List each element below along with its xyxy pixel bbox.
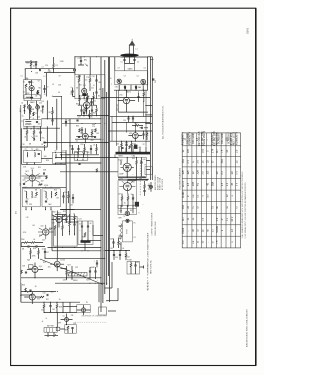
wire det row2	[31, 248, 46, 258]
tube V14 pins	[119, 180, 135, 194]
audio output stage box	[54, 217, 78, 247]
svg-text:IF: IF	[33, 118, 34, 120]
battery cell marks	[47, 328, 53, 333]
resistor R30	[79, 98, 81, 102]
svg-text:R18: R18	[39, 235, 42, 237]
resistor R25	[25, 288, 27, 292]
svg-text:AT 90 VOLTS: AT 90 VOLTS	[161, 178, 164, 190]
wire pilot leads	[76, 305, 90, 315]
wire right vertical x147	[147, 72, 149, 91]
svg-text:SYN: SYN	[139, 178, 142, 180]
filter box	[77, 305, 90, 313]
wire x66 vert	[65, 164, 67, 214]
wire audio extra leads	[67, 215, 75, 223]
svg-text:SPKR: SPKR	[127, 228, 129, 233]
wire gang right drop	[145, 90, 147, 146]
resistor R47	[135, 125, 139, 127]
capacitor C13	[42, 106, 44, 107]
junction rail1236c	[94, 122, 97, 125]
svg-text:R29: R29	[65, 330, 68, 332]
wire rail y112.1	[118, 111, 148, 113]
resistor R6	[24, 105, 26, 109]
resistor R34	[95, 129, 97, 133]
wire vert x52	[51, 211, 53, 251]
wire topleft rail y62	[25, 61, 37, 63]
electrolytic polarity bar	[81, 240, 91, 243]
wire rail y235.4	[93, 234, 103, 236]
wire antenna to grid	[121, 57, 148, 64]
svg-text:1U5: 1U5	[193, 181, 195, 186]
wire rail y176 det	[22, 175, 48, 177]
svg-text:1T4: 1T4	[80, 133, 83, 135]
capacitor C70 right of T5	[72, 198, 74, 199]
svg-text:.05: .05	[68, 120, 70, 122]
hatched resistor bar	[68, 272, 87, 276]
wire rail y258.3	[45, 257, 105, 259]
junction v2 below	[83, 96, 86, 99]
svg-text:C23: C23	[79, 224, 82, 226]
capacitor C37	[76, 120, 78, 121]
tube V15 output socket	[125, 211, 129, 215]
wire vertical x46.5	[46, 73, 48, 97]
svg-text:C54: C54	[123, 120, 126, 122]
wire v3 drops	[25, 107, 43, 119]
svg-text:T2: T2	[25, 149, 27, 151]
resistor R7	[33, 112, 35, 116]
bus wire 5	[108, 57, 110, 276]
wire y157.8 rail	[55, 157, 118, 159]
svg-text:R27: R27	[46, 299, 49, 301]
IF coil L11	[77, 153, 80, 157]
IF coil L6	[26, 123, 32, 126]
wire topleft leads	[25, 60, 37, 69]
wire mixer cascade leads	[84, 93, 92, 119]
svg-text:C18: C18	[26, 217, 29, 219]
svg-text:C4: C4	[58, 92, 60, 94]
svg-text:C9: C9	[46, 87, 48, 89]
tube V9 leads	[24, 292, 40, 305]
svg-text:C29: C29	[75, 267, 78, 269]
gang mounting pads	[124, 87, 126, 89]
svg-text:--: --	[207, 139, 209, 141]
wire rail y141.2	[110, 140, 150, 142]
svg-text:T6: T6	[123, 216, 125, 218]
svg-text:90 V: 90 V	[232, 216, 234, 221]
svg-text:R2: R2	[23, 82, 25, 84]
capacitor C68 mixer top	[78, 76, 80, 77]
wire filter leads	[114, 238, 119, 248]
svg-text:T5: T5	[44, 191, 46, 193]
tube V5 3S4 output	[56, 217, 62, 223]
capacitor C51	[119, 255, 121, 256]
wire c9 leads	[44, 85, 46, 93]
svg-text:.01: .01	[40, 111, 42, 113]
bus wire 4	[106, 92, 108, 285]
capacitor C31	[29, 290, 31, 291]
wire gang stator leads	[119, 85, 143, 90]
resistor R33	[79, 129, 81, 133]
tube V3b socket circle	[36, 105, 40, 109]
coupling capacitor C7	[40, 69, 41, 71]
wire c9b leads	[73, 88, 75, 97]
wire stub right edge y59.6	[150, 59, 153, 61]
svg-text:.01: .01	[46, 199, 48, 201]
capacitor C25	[28, 245, 29, 247]
svg-text:0*: 0*	[222, 218, 224, 220]
svg-text:.05: .05	[35, 96, 37, 98]
wire right edge x152.3	[151, 57, 153, 180]
junction power rail	[126, 176, 129, 179]
right small box	[145, 167, 153, 175]
svg-text:T4: T4	[24, 191, 26, 193]
wire dashed right low	[147, 262, 149, 292]
cathode dark blob V2	[82, 94, 86, 96]
svg-text:R15: R15	[63, 211, 66, 213]
resistor R9	[33, 131, 35, 135]
svg-text:C27: C27	[46, 252, 49, 254]
switch body box	[65, 325, 77, 334]
connector block bottom	[99, 307, 107, 315]
svg-text:C17: C17	[62, 150, 65, 152]
svg-text:100: 100	[38, 124, 41, 126]
resistor R1	[53, 64, 55, 68]
tube V12 1T4	[82, 133, 88, 139]
bus wire 2	[102, 88, 104, 303]
svg-text:R44: R44	[126, 257, 129, 259]
wire rt cluster leads	[61, 191, 75, 210]
resistor R31	[93, 96, 95, 100]
T4 secondary coil	[31, 192, 34, 198]
wire long rail y247.5	[48, 247, 102, 249]
svg-text:VOL: VOL	[41, 138, 44, 140]
wire dotted filament	[75, 321, 107, 323]
svg-text:PL: PL	[86, 302, 88, 304]
padder capacitor C6	[135, 87, 137, 88]
wire trimmer drops	[125, 57, 135, 64]
wire right drop from antenna	[147, 57, 149, 72]
svg-text:1 4 5 7: 1 4 5 7	[84, 100, 89, 102]
wire rail y209 over T4	[60, 209, 101, 211]
svg-text:40MF: 40MF	[119, 174, 123, 176]
svg-text:10: 10	[59, 299, 61, 301]
wire rail y56.8 ext	[148, 56, 153, 58]
capacitor C20 in T4	[25, 201, 27, 202]
junction rail1236a	[65, 122, 68, 125]
svg-text:R32: R32	[93, 113, 96, 115]
svg-text:R4: R4	[80, 85, 82, 87]
junction mid1	[125, 89, 128, 92]
resistor R10	[39, 184, 43, 186]
svg-text:R13: R13	[54, 190, 57, 192]
svg-text:PLATE VOLTS: PLATE VOLTS	[203, 130, 206, 145]
wire y283 rail	[55, 282, 105, 284]
speaker transformer blob	[29, 265, 34, 268]
wire c53 r46 leads	[139, 90, 144, 102]
capacitor C52	[134, 265, 136, 266]
junction bottom box	[142, 266, 145, 269]
capacitor C54	[127, 118, 129, 119]
arrow avc	[85, 64, 88, 67]
svg-text:465: 465	[36, 149, 39, 151]
svg-text:C14: C14	[37, 117, 40, 119]
svg-text:+: +	[134, 197, 135, 199]
svg-text:C8: C8	[37, 81, 39, 83]
wire c54 c55 leads	[129, 116, 134, 122]
svg-text:.1: .1	[93, 261, 94, 263]
wire dashed field	[139, 160, 141, 196]
svg-text:R43: R43	[119, 238, 122, 240]
wire x121 low	[120, 242, 122, 251]
junction rail1236b	[81, 122, 84, 125]
svg-text:1T4: 1T4	[67, 155, 70, 157]
svg-text:.05: .05	[21, 116, 23, 118]
svg-text:C1: C1	[20, 76, 22, 78]
wire x99 bottom	[98, 283, 100, 302]
svg-text:220: 220	[45, 65, 48, 67]
wire trimmer to gang drops	[125, 64, 135, 71]
wire stub y159	[41, 158, 52, 160]
resistor R53 mixer	[89, 113, 91, 116]
capacitor C34	[71, 328, 73, 329]
wire battery drop1	[47, 332, 49, 335]
svg-text:SW: SW	[37, 299, 40, 301]
wire v1 leads	[26, 80, 38, 97]
tuning condenser rotor arrows	[117, 79, 145, 84]
wire feeder x66 top	[65, 150, 67, 164]
svg-text:C47: C47	[118, 194, 121, 196]
tube V8 leads	[50, 258, 64, 271]
wire r1 bottom	[53, 68, 55, 73]
resistor R56 avc	[52, 111, 54, 115]
svg-text:C10: C10	[91, 76, 94, 78]
svg-text:C40: C40	[69, 146, 72, 148]
wire left bus drop x115	[114, 154, 116, 157]
svg-text:C3: C3	[117, 68, 119, 70]
svg-text:.05: .05	[32, 66, 34, 68]
wire rail y131.0	[109, 130, 153, 132]
IF coil L5	[26, 120, 32, 123]
IF coil L7	[26, 153, 29, 158]
svg-text:FILAMENT V: FILAMENT V	[236, 131, 239, 145]
wire bottom row leads	[67, 266, 96, 279]
svg-text:T2: T2	[31, 149, 33, 151]
svg-text:COPYRIGHT 1947 JOHN F. RIDER P: COPYRIGHT 1947 JOHN F. RIDER PUBLISHER	[147, 232, 149, 274]
capacitor C44	[122, 147, 124, 150]
trimmer capacitor C1	[123, 60, 125, 61]
resistor R4	[78, 79, 80, 83]
svg-text:C18: C18	[23, 167, 26, 169]
wire battery drop2	[53, 332, 55, 335]
capacitor C46	[140, 162, 142, 163]
wire c65 leads	[81, 127, 83, 134]
wire y115.5 rail	[77, 114, 109, 116]
wire vert x57.3	[56, 211, 58, 259]
resistor R15	[62, 226, 64, 230]
antenna plug	[129, 40, 135, 45]
svg-text:R30: R30	[76, 104, 79, 106]
IF coil L9	[55, 154, 58, 158]
svg-text:VOLTAGE READINGS: VOLTAGE READINGS	[179, 167, 182, 190]
resistor R48	[146, 133, 148, 136]
svg-text:OSC GRID: OSC GRID	[222, 132, 224, 144]
capacitor C67 in V1 box	[28, 82, 30, 83]
svg-text:R6: R6	[38, 88, 40, 90]
svg-text:C9: C9	[58, 76, 60, 78]
wire y163 rail	[55, 162, 101, 164]
resistor R20	[30, 251, 32, 255]
wire c71 leads	[96, 260, 98, 267]
capacitor C14 in T1	[36, 122, 38, 123]
svg-text:3S4: 3S4	[53, 212, 56, 214]
capacitor C58	[125, 145, 127, 146]
wire mid drop x143.5	[143, 101, 145, 116]
svg-text:J1: J1	[146, 180, 148, 182]
resistor R49	[121, 144, 123, 147]
svg-text:NEW YORK INC: NEW YORK INC	[151, 259, 153, 274]
electrolytic block box	[78, 221, 93, 245]
svg-text:0 V: 0 V	[237, 182, 239, 186]
svg-text:T4: T4	[26, 204, 28, 206]
capacitor C71 near bus	[96, 263, 98, 264]
wire switch box leads	[60, 329, 73, 333]
resistor R14	[54, 226, 56, 230]
svg-text:RECT 117Z3: RECT 117Z3	[233, 131, 235, 145]
svg-text:6V: 6V	[121, 178, 123, 180]
wire y171.8 rail	[60, 171, 118, 173]
wire x118 low	[117, 288, 119, 301]
wire c57 r48 leads	[144, 131, 148, 140]
electrolytic marker dark	[135, 202, 139, 207]
svg-text:+: +	[133, 174, 134, 176]
IF coil L8	[34, 153, 37, 158]
svg-text:0*: 0*	[188, 195, 190, 197]
svg-text:.005: .005	[25, 199, 28, 201]
wire mixer down x75	[74, 57, 76, 75]
svg-text:20MF: 20MF	[82, 237, 86, 239]
wire avc leads	[52, 107, 54, 125]
svg-text:R47: R47	[135, 123, 138, 125]
svg-text:FILAMENT V: FILAMENT V	[188, 131, 191, 145]
capacitor C61 topleft	[35, 64, 37, 65]
capacitor C69 right of T5	[62, 196, 64, 197]
voltage table column lines	[187, 133, 236, 248]
wire y180 rail short	[128, 179, 148, 181]
capacitor C59 mixer	[90, 102, 92, 103]
svg-text:C32: C32	[42, 293, 45, 295]
svg-text:3.3M: 3.3M	[60, 61, 64, 63]
svg-text:3Q4: 3Q4	[27, 260, 30, 262]
wire x57.3 low	[56, 313, 58, 328]
svg-text:FIELD 450 OHM: FIELD 450 OHM	[155, 221, 157, 235]
bus wire 6	[108, 57, 110, 302]
svg-text:R26: R26	[22, 285, 25, 287]
svg-text:47: 47	[39, 95, 41, 97]
wire gang left drop	[116, 90, 118, 146]
wire r47 leads	[132, 125, 148, 127]
wire r42 leads	[144, 181, 146, 196]
wire x70 vert	[69, 119, 71, 222]
capacitor C9b mixer left	[71, 91, 73, 92]
rf stage box	[23, 80, 41, 99]
svg-text:C4: C4	[143, 68, 145, 70]
frame right edge accent	[255, 8, 257, 365]
svg-text:C37: C37	[77, 117, 80, 119]
arrow volume control	[32, 137, 36, 140]
wire feeder x21.5	[21, 128, 23, 164]
wire rail y122.4	[112, 121, 150, 123]
svg-text:465KC: 465KC	[126, 91, 132, 93]
svg-text:SCRN: SCRN	[217, 226, 219, 233]
electrolytic capacitor C24	[87, 226, 89, 227]
capacitor C47	[132, 198, 134, 199]
wire y312.5 rail	[44, 312, 77, 314]
wire right edge x150.4	[149, 57, 151, 180]
wire rail y306.5	[63, 306, 77, 308]
rectifier stage box	[118, 181, 136, 209]
plug P1	[56, 327, 60, 330]
1st IF transformer T1 box	[24, 120, 42, 127]
capacitor C45	[136, 147, 138, 150]
tube V3 socket circle	[28, 105, 32, 109]
svg-text:7: 7	[131, 88, 132, 90]
wire y155 rail	[60, 154, 99, 156]
diagonal speaker lead	[40, 259, 103, 285]
resistor R21	[38, 251, 40, 255]
wire pregang leads	[122, 141, 132, 152]
resistor R50	[131, 144, 133, 147]
battery B1 box	[44, 328, 57, 333]
tube V16 oscillator triode	[123, 97, 129, 103]
resistor R28	[56, 305, 58, 309]
svg-text:R25: R25	[86, 280, 89, 282]
voltage table cell entries (rotated)	[182, 130, 239, 243]
tube V6 star detector	[43, 229, 49, 235]
svg-text:PIN 4: PIN 4	[183, 227, 185, 233]
2nd IF transformer T2 box	[23, 151, 41, 163]
wire left top rail lower	[44, 72, 75, 74]
capacitor C53 osc grid	[137, 97, 139, 98]
svg-text:.05: .05	[34, 286, 36, 288]
wire det row	[21, 243, 45, 247]
svg-text:22: 22	[143, 144, 145, 146]
svg-text:.005: .005	[70, 205, 73, 207]
capacitor C12	[80, 61, 82, 62]
tuning condenser section C3B	[141, 79, 146, 84]
capacitor C63 avc	[51, 120, 53, 121]
wire x90.2 gang	[89, 57, 91, 75]
svg-text:.002: .002	[40, 181, 43, 183]
junction y277.8	[34, 276, 37, 279]
svg-text:DET AVC 1U5: DET AVC 1U5	[198, 131, 201, 146]
svg-text:L3: L3	[52, 84, 54, 86]
svg-text:L4: L4	[21, 103, 23, 105]
tube V13 cross	[124, 165, 130, 171]
svg-text:R39: R39	[132, 158, 135, 160]
svg-text:+: +	[90, 231, 91, 233]
tube V4 1U5 detector	[29, 175, 35, 181]
wire feeder x44.5 det	[44, 147, 46, 151]
svg-text:B: B	[110, 78, 111, 80]
svg-text:150: 150	[85, 80, 88, 82]
capacitor C41	[77, 149, 79, 150]
svg-text:100: 100	[79, 96, 82, 98]
junction power rail2	[135, 178, 138, 181]
wire vertical x61.5	[61, 96, 63, 160]
capacitor C36	[91, 110, 93, 111]
svg-text:100: 100	[44, 156, 47, 158]
wire x93 elec	[92, 225, 94, 235]
resistor R24	[71, 271, 73, 275]
